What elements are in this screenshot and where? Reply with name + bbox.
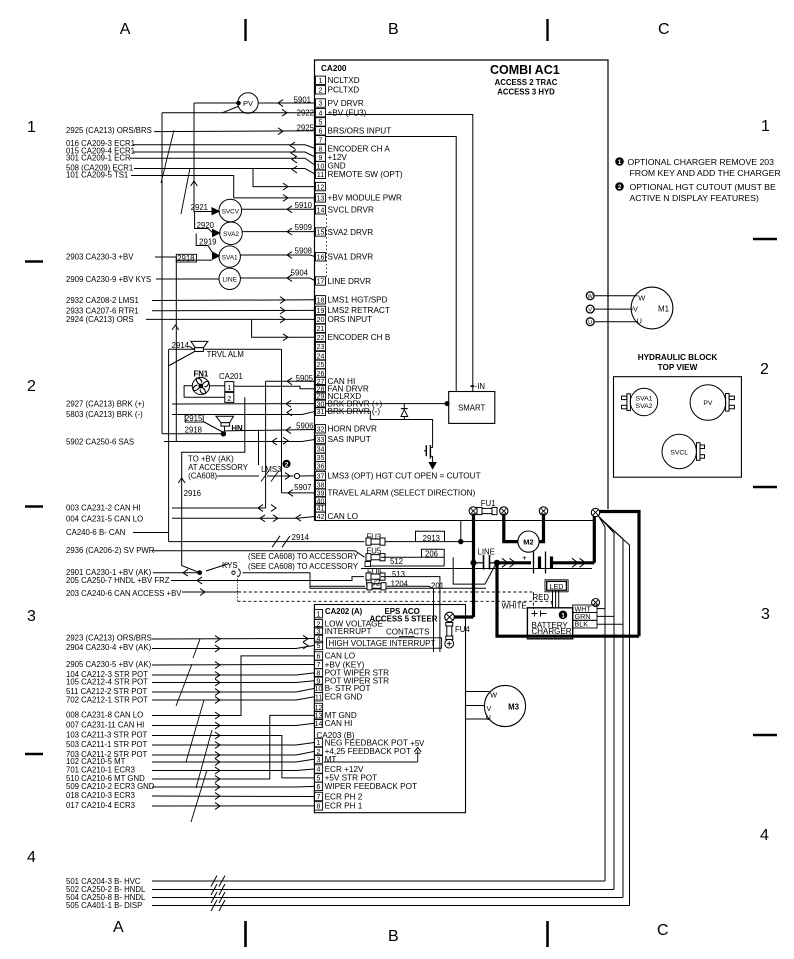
svg-text:HYDRAULIC BLOCK: HYDRAULIC BLOCK [638,353,718,362]
svg-text:ECR GND: ECR GND [325,693,363,702]
svg-text:ENCODER CH B: ENCODER CH B [328,333,391,342]
CA200 pin 33 SAS INPUT [316,435,326,443]
wire 2915 diagonal to horn node [203,422,223,433]
wire 5803 BRK- to pin 31 [172,414,302,416]
dashed wire 203 to RED [238,591,532,593]
charger BLK wire [597,623,623,625]
border tick bottom AB [244,921,247,947]
terminal screw 2 [500,507,508,515]
wire stub to FU2 [310,585,365,587]
svg-text:33: 33 [317,437,325,444]
svg-text:ACCESS 2 TRAC: ACCESS 2 TRAC [495,78,558,87]
CA202 pin 8 POT WIPER STR [314,669,322,677]
svg-text:CAN HI: CAN HI [325,719,353,728]
svg-text:HORN DRVR: HORN DRVR [328,425,378,434]
note 1 [616,158,624,166]
svg-text:V: V [633,305,638,314]
svg-text:509 CA210-2 ECR3 GND: 509 CA210-2 ECR3 GND [66,782,155,791]
svg-text:2924 (CA213) ORS: 2924 (CA213) ORS [66,315,134,324]
wire pin 4 +BV to SMART IN [326,115,473,392]
CA200 pin 41 [316,504,326,512]
svg-text:SVA1 DRVR: SVA1 DRVR [328,253,374,262]
svg-text:CA202 (A): CA202 (A) [325,607,363,616]
wire 103 to CA203-5 [152,736,314,778]
svg-text:1: 1 [319,78,323,85]
valve coil PV [238,93,258,113]
CA203 pin 8 ECR PH 1 [314,802,322,810]
svg-text:LMS3: LMS3 [261,465,281,474]
svg-text:2919: 2919 [199,237,216,246]
riser 206 box to 512 wire [443,557,445,566]
charger WHT GRN BLK labels [573,605,597,613]
svg-text:1: 1 [618,159,622,166]
wire 2932 LMS1 to pin 18 [152,299,316,302]
wire 511 to CA202-10 [152,688,314,692]
svg-text:5906: 5906 [296,421,313,430]
CA200 connector dashed body edge [326,215,328,278]
svg-text:20: 20 [317,317,325,324]
wire 503 to CA203-1 [152,743,314,746]
key switch KYS [198,571,202,575]
thick wire FU1 terminal1 down [472,514,475,618]
wire CA608 to pin 37 with break [217,475,259,477]
CA200 pin 6 BRS/ORS INPUT [316,127,326,135]
wire 2923 to CA202-4 [152,638,314,641]
svg-text:CAN LO: CAN LO [328,512,358,521]
dashed RED down [532,592,534,609]
M1 phase terminal V [586,305,594,313]
CA202 pin 13 MT GND [314,711,322,719]
wire 509 to CA203-6 [152,785,314,788]
border tick bottom BC [546,921,549,947]
CA200 pin 35 [316,453,326,461]
horn HN [216,416,234,422]
svg-text:PCLTXD: PCLTXD [328,86,360,95]
svg-text:12: 12 [317,184,325,191]
CA200 pin 5 [316,118,326,126]
CA200 pin 14 SVCL DRVR [316,206,326,214]
wire pin 7 BRS to SMART [326,137,457,392]
svg-text:V: V [588,307,592,313]
svg-text:203 CA240-6 CAN ACCESS +BV: 203 CA240-6 CAN ACCESS +BV [66,589,182,598]
svg-text:ECR +12V: ECR +12V [325,765,364,774]
inline connector circle pin37 [294,473,299,478]
hydraulic valve SVCL [662,434,696,468]
svg-text:CA240-6 B- CAN: CA240-6 B- CAN [66,528,125,537]
CA200 pin 32 HORN DRVR [316,425,326,433]
wire SVA2 to pin 15 [242,231,315,233]
svg-text:8: 8 [319,146,323,153]
svg-text:PV: PV [243,99,253,108]
svg-text:205 CA250-7 HNDL +BV FRZ: 205 CA250-7 HNDL +BV FRZ [66,576,170,585]
svg-text:15: 15 [317,230,325,237]
svg-text:(CA608): (CA608) [188,472,217,481]
wire 201 riser to LINE node [453,557,495,584]
charger WHT wire [597,608,605,610]
CA200 pin 42 CAN LO [316,512,326,520]
svg-text:TOP VIEW: TOP VIEW [658,363,698,372]
CA200 pin 26 [316,369,326,377]
svg-text:3: 3 [761,606,770,623]
motor M3 [484,685,525,726]
CA200 pin 4 +BV (FU3) [316,109,326,117]
contactor coil LINE [219,268,240,289]
motor M2 [518,531,539,552]
svg-text:SVA2: SVA2 [223,231,239,238]
svg-text:5904: 5904 [291,269,309,278]
wire key switch right [243,573,311,589]
svg-text:35: 35 [317,455,325,462]
fan FN1 [192,377,209,394]
CA200 pin 13 +BV MODULE PWR [316,194,326,202]
svg-text:3: 3 [317,757,321,764]
wire 512 [371,565,445,567]
wire 504 B- HNDL [152,897,623,899]
svg-text:W: W [490,691,497,700]
charger GRN wire [597,615,614,617]
svg-text:(SEE CA608) TO ACCESSORY: (SEE CA608) TO ACCESSORY [248,552,359,561]
svg-text:103 CA211-3 STR POT: 103 CA211-3 STR POT [66,731,148,740]
svg-text:ORS INPUT: ORS INPUT [328,315,373,324]
wire 2918 bus to SVA1 [176,259,212,261]
svg-text:TO +BV (AK): TO +BV (AK) [188,455,234,464]
svg-text:2909 CA230-9 +BV KYS: 2909 CA230-9 +BV KYS [66,275,151,284]
wire 2927 BRK+ to pin 30 [172,403,316,405]
wire 2913 to thick vertical [385,541,474,543]
wire 2924 ORS to pin 20 [146,318,316,320]
svg-text:017 CA210-4 ECR3: 017 CA210-4 ECR3 [66,801,135,810]
up arrow on bus [172,325,179,330]
CA200 pin 12 [316,182,326,190]
CA203 pin 6 WIPER FEEDBACK POT [314,782,322,790]
svg-text:5: 5 [317,776,321,783]
small connector square 512 [365,562,371,567]
svg-text:HN: HN [231,424,243,433]
svg-text:9: 9 [319,155,323,162]
LED box [545,580,568,592]
svg-text:SVCL: SVCL [670,449,688,456]
svg-text:FU4: FU4 [455,625,470,634]
wire +5V to CA203 pin3 [324,761,418,763]
svg-text:105 CA212-4 STR POT: 105 CA212-4 STR POT [66,678,148,687]
CA200 pin 40 [316,497,326,505]
speaker TRVL ALM [191,341,208,347]
svg-text:4: 4 [760,827,769,844]
svg-text:SVA1: SVA1 [636,395,653,402]
svg-text:LED: LED [550,582,564,591]
svg-text:SVCL DRVR: SVCL DRVR [328,206,374,215]
svg-text:2: 2 [27,378,36,395]
slash arrows on 2914 wire [272,536,280,548]
wire 2903 +BV to bus [155,256,176,258]
border tick left 1-2 [25,260,43,263]
wire 2933 RTR1 to pin 19 [152,309,316,311]
wire PV to pin 3 [258,102,315,104]
svg-text:2927 (CA213) BRK (+): 2927 (CA213) BRK (+) [66,400,145,409]
svg-text:A: A [120,21,131,38]
CA200 pin 30 BRK DRVR (+) [316,399,326,407]
border tick left 2-3 [25,505,43,508]
svg-text:5910: 5910 [295,201,313,210]
svg-text:36: 36 [317,464,325,471]
svg-text:1: 1 [27,119,36,136]
thick wire terminal2 to M2 [504,514,518,542]
coil SVA2 [220,222,243,245]
svg-text:INTERRUPT: INTERRUPT [325,627,372,636]
wire 2916 from CA201-2 down [182,397,245,572]
wire accessory 2 [361,568,592,570]
wire 301 ECR to pin 10 [130,158,316,165]
CA200 pin 25 [316,360,326,368]
wire branch 2922 to PV bottom [223,107,239,113]
thick wire contact to battery [497,561,531,564]
svg-text:1: 1 [227,383,231,392]
svg-text:2: 2 [285,461,289,468]
svg-text:+BV (FU3): +BV (FU3) [328,109,367,118]
CA202 pin 4 [314,634,322,642]
CA200 pin 16 SVA1 DRVR [316,253,326,261]
svg-text:CONTACTS: CONTACTS [386,628,429,637]
wire 1204 [387,586,434,652]
svg-text:SMART: SMART [458,404,485,413]
wire M3 V [466,705,485,707]
svg-text:2925 (CA213) ORS/BRS: 2925 (CA213) ORS/BRS [66,126,152,135]
svg-text:LMS2 RETRACT: LMS2 RETRACT [328,306,390,315]
CA203 pin 3 MT [314,755,322,763]
svg-text:18: 18 [317,298,325,305]
svg-text:1: 1 [561,612,565,619]
riser rail to 2913 wire [460,521,462,542]
svg-text:2918: 2918 [177,254,194,263]
svg-text:8: 8 [317,804,321,811]
svg-text:U: U [588,320,592,326]
CA200 pin 29 NCLRXD [316,392,326,400]
+5V supply arrow symbol [417,750,419,762]
svg-text:2903 CA230-3 +BV: 2903 CA230-3 +BV [66,253,134,262]
wire 2918 to horn node [162,433,223,435]
wire fanout t4 c [599,517,623,539]
thick wire M2 to terminal3 [539,514,543,542]
svg-text:C: C [658,21,670,38]
wire 501 B- HVC [152,880,605,882]
svg-text:11: 11 [315,694,322,701]
svg-text:2936 (CA206-2) SV PWR: 2936 (CA206-2) SV PWR [66,546,155,555]
CA203 pin 2 +4,25 FEEDBACK POT [314,747,322,755]
svg-text:503 CA211-1 STR POT: 503 CA211-1 STR POT [66,740,148,749]
label box 206 [422,549,445,557]
svg-text:FROM KEY AND ADD THE CHARGER: FROM KEY AND ADD THE CHARGER [630,168,781,178]
svg-text:7: 7 [317,794,321,801]
svg-text:1: 1 [317,740,321,747]
svg-text:2: 2 [760,361,769,378]
CA202 pin 10 B- STR POT [314,684,322,692]
svg-text:FU1: FU1 [481,499,496,508]
coil SVCV [219,199,242,222]
wire pin 31 BRK- jog [326,411,433,444]
horn stem [224,426,226,433]
svg-text:W: W [588,294,594,300]
hydraulic valve PV [690,385,726,421]
hydraulic block box [614,377,742,478]
svg-text:7: 7 [317,662,321,669]
CA200 pin 10 GND [316,161,326,169]
svg-text:505 CA401-1 B- DISP: 505 CA401-1 B- DISP [66,901,142,910]
CA200 pin 1 NCLTXD [316,76,326,84]
svg-text:W: W [638,294,645,303]
svg-text:19: 19 [317,308,325,315]
svg-text:B: B [388,928,399,945]
wire 017 to CA203-8 [152,805,314,807]
CA200 pin 8 ENCODER CH A [316,144,326,152]
CA202 pin 9 POT WIPER STR [314,677,322,685]
wire fan to CA201-1 [210,385,225,387]
charger battery symbol [532,613,538,615]
svg-text:A: A [113,919,124,936]
CA202 pin 11 ECR GND [314,693,322,701]
CA203 pin 5 +5V STR POT [314,774,322,782]
svg-text:CA200: CA200 [321,64,347,73]
module BATTERY CHARGER [527,608,572,639]
svg-text:6: 6 [317,654,321,661]
CA200 pin 20 ORS INPUT [316,315,326,323]
svg-text:5803 (CA213) BRK (-): 5803 (CA213) BRK (-) [66,410,143,419]
svg-text:2921: 2921 [191,203,208,212]
border tick right 3-4 [753,734,777,737]
dashed wire KYS to WHITE charger [238,600,552,602]
motor M1 [631,287,673,329]
svg-text:ECR PH 2: ECR PH 2 [325,792,363,801]
wire 2936 SV PWR to FU5 [153,551,365,558]
svg-text:M2: M2 [523,537,533,546]
wire CAN HI riser [265,381,267,508]
svg-text:+5V: +5V [410,739,425,748]
svg-text:OPTIONAL HGT CUTOUT (MUST BE: OPTIONAL HGT CUTOUT (MUST BE [630,182,776,192]
wire 2914 horizontal [169,541,365,543]
thick wire battery to terminal4 [552,561,595,564]
HIGH VOLTAGE INTERRUPT boxed label [327,638,442,648]
svg-text:U: U [486,713,491,722]
B- bus vertical 4 [629,545,631,906]
CA200 pin 36 [316,462,326,470]
terminal screw CA202 [445,612,455,622]
svg-text:34: 34 [317,447,325,454]
wire speaker to travel alarm vertical [169,348,282,350]
wire to pin 12 [253,169,316,187]
wire 701 to CA203-4 [152,769,314,771]
CA200 pin 39 TRAVEL ALARM (SELECT DIRECTION) [316,489,326,497]
svg-text:NCLTXD: NCLTXD [328,76,360,85]
svg-text:LINE DRVR: LINE DRVR [328,277,372,286]
svg-text:14: 14 [315,721,323,728]
wire pin 30 BRK+ to SMART [326,403,449,405]
wire 104 to CA202-8 [152,673,314,675]
svg-text:301 CA209-1 ECR: 301 CA209-1 ECR [66,153,131,162]
CA200 pin 27 CAN HI [316,377,326,385]
controller COMBI AC1 enclosure box [315,60,609,521]
wire bus to SVCV [195,211,212,213]
wire 508 ECR1 to pin 11 [134,169,316,175]
svg-text:1204: 1204 [391,580,409,589]
svg-text:2918: 2918 [185,426,202,435]
svg-text:ACTIVE N DISPLAY FEATURES): ACTIVE N DISPLAY FEATURES) [630,193,759,203]
svg-text:10: 10 [315,686,323,693]
wire 2925 ORS/BRS to pin 6 [154,130,316,133]
svg-text:-IN: -IN [475,382,485,391]
svg-text:LINE: LINE [478,548,495,557]
coil SVA1 [219,246,240,267]
svg-text:5907: 5907 [294,483,311,492]
wire 018 to CA203-7 [152,795,314,798]
svg-text:007 CA231-11 CAN HI: 007 CA231-11 CAN HI [66,721,144,730]
label box 2918 [176,254,196,262]
svg-text:LMS1 HGT/SPD: LMS1 HGT/SPD [328,296,388,305]
svg-text:ECR PH 1: ECR PH 1 [325,802,363,811]
wire horn to pin 32 [225,430,316,431]
svg-text:RED: RED [533,593,550,602]
wire 206 [381,556,444,558]
note 1 circle charger [559,611,567,619]
svg-text:32: 32 [317,427,325,434]
svg-text:7: 7 [319,138,323,145]
CA200 pin 2 PCLTXD [316,86,326,94]
svg-text:LMS3 (OPT) HGT CUT OPEN = CUTO: LMS3 (OPT) HGT CUT OPEN = CUTOUT [328,472,481,481]
svg-text:5: 5 [319,120,323,127]
svg-text:CHARGER: CHARGER [532,627,572,636]
wire 5905 to pin 27 [266,380,316,382]
svg-text:4: 4 [319,110,323,117]
svg-text:004 CA231-5 CAN LO: 004 CA231-5 CAN LO [66,515,143,524]
wire SVCV to pin 14 [242,208,316,210]
thick wire terminal4 to charger loop [600,512,640,637]
wire 2901 to key switch [153,572,198,574]
charger terminal screw [592,599,600,607]
wire LINE coil to pin 17 [240,277,310,279]
border tick top BC [546,19,548,41]
wire 2914 diag to speaker [189,346,196,350]
wire fanout t4 d [600,518,630,545]
LINE contact junction dots [471,560,476,565]
CA203 pin 1 NEG FEEDBACK POT [314,738,322,746]
svg-text:6: 6 [319,129,323,136]
left bus vertical x176 [175,257,177,442]
CONTACTS underline [399,636,415,638]
B- bus vertical 1 [604,527,606,881]
CA200 pin 7 [316,136,326,144]
svg-text:3: 3 [27,608,36,625]
svg-text:5: 5 [317,643,321,650]
svg-text:512: 512 [390,557,403,566]
svg-text:BRS/ORS INPUT: BRS/ORS INPUT [328,127,392,136]
svg-text:SAS INPUT: SAS INPUT [328,435,371,444]
wire 007 CAN HI to CA202-14 [152,723,314,725]
CA202 pin 3 INTERRUPT [314,627,322,635]
svg-text:+BV MODULE PWR: +BV MODULE PWR [328,194,402,203]
svg-text:2904 CA230-4 +BV (AK): 2904 CA230-4 +BV (AK) [66,643,152,652]
svg-text:17: 17 [317,279,325,286]
svg-text:37: 37 [317,474,325,481]
CA200 pin 22 ENCODER CH B [316,333,326,341]
wire 105 to CA202-9 [152,681,314,683]
wire 203 CAN ACCESS [182,591,238,593]
thick wire LINE node down to charger [497,563,639,636]
vertical wire 5907 travel alarm [281,349,283,493]
svg-text:5909: 5909 [295,223,312,232]
hydraulic valve SVA1 SVA2 [630,388,657,415]
border tick right 1-2 [753,238,777,241]
svg-text:GND: GND [328,161,346,170]
svg-text:008 CA231-8 CAN LO: 008 CA231-8 CAN LO [66,711,143,720]
wire 004 CAN LO to pin 42 [172,516,316,518]
